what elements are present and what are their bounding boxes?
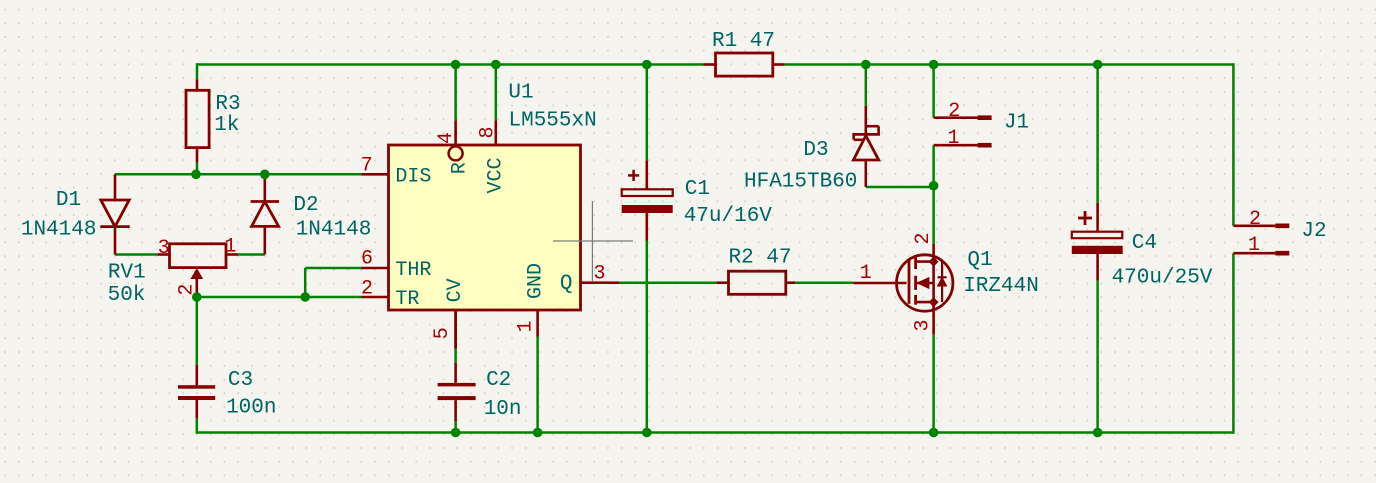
- svg-text:R: R: [449, 162, 472, 174]
- svg-text:J2: J2: [1301, 220, 1326, 243]
- svg-text:LM555xN: LM555xN: [508, 109, 596, 132]
- svg-text:HFA15TB60: HFA15TB60: [744, 171, 857, 194]
- svg-text:THR: THR: [395, 259, 431, 282]
- svg-text:1k: 1k: [214, 114, 239, 137]
- svg-text:TR: TR: [395, 288, 419, 311]
- svg-text:Q1: Q1: [967, 249, 992, 272]
- svg-text:GND: GND: [525, 263, 548, 299]
- svg-text:R1 47: R1 47: [712, 30, 775, 53]
- svg-text:D1: D1: [56, 189, 81, 212]
- svg-text:C2: C2: [486, 369, 511, 392]
- svg-text:CV: CV: [444, 278, 467, 302]
- svg-text:6: 6: [361, 248, 373, 271]
- svg-text:2: 2: [1249, 208, 1261, 231]
- svg-text:100n: 100n: [226, 397, 276, 420]
- svg-text:8: 8: [477, 126, 500, 138]
- svg-text:1: 1: [947, 127, 959, 150]
- svg-text:C1: C1: [685, 178, 710, 201]
- svg-text:2: 2: [912, 232, 935, 244]
- svg-text:1: 1: [224, 236, 236, 259]
- svg-text:47u/16V: 47u/16V: [684, 205, 773, 228]
- svg-text:470u/25V: 470u/25V: [1112, 267, 1213, 290]
- svg-text:2: 2: [948, 100, 960, 123]
- svg-text:3: 3: [158, 237, 170, 260]
- svg-text:U1: U1: [508, 82, 533, 105]
- svg-text:Q: Q: [560, 273, 573, 296]
- svg-text:1N4148: 1N4148: [296, 219, 372, 242]
- svg-text:J1: J1: [1004, 111, 1029, 134]
- svg-text:IRZ44N: IRZ44N: [963, 275, 1039, 298]
- svg-text:RV1: RV1: [108, 261, 146, 284]
- svg-text:3: 3: [911, 319, 934, 331]
- svg-text:D3: D3: [803, 139, 828, 162]
- svg-text:5: 5: [431, 327, 454, 339]
- svg-text:R3: R3: [215, 93, 240, 116]
- svg-text:1: 1: [1248, 234, 1260, 257]
- svg-text:3: 3: [593, 263, 605, 286]
- svg-text:1: 1: [515, 320, 538, 332]
- svg-text:D2: D2: [293, 194, 318, 217]
- svg-text:1N4148: 1N4148: [21, 218, 97, 241]
- svg-text:R2 47: R2 47: [728, 247, 791, 270]
- svg-text:7: 7: [361, 154, 373, 177]
- svg-text:2: 2: [361, 278, 373, 301]
- svg-text:DIS: DIS: [395, 166, 431, 189]
- svg-text:C3: C3: [228, 369, 253, 392]
- svg-text:C4: C4: [1132, 232, 1157, 255]
- svg-text:2: 2: [176, 284, 199, 296]
- svg-text:4: 4: [435, 132, 458, 144]
- svg-text:50k: 50k: [108, 284, 146, 307]
- svg-text:VCC: VCC: [485, 157, 508, 193]
- svg-text:10n: 10n: [484, 398, 522, 421]
- svg-text:1: 1: [860, 262, 872, 285]
